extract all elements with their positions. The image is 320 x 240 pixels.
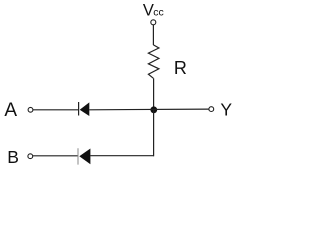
terminal A — [28, 107, 33, 112]
diode D1 (input A), cathode bar and triangle — [79, 102, 90, 116]
wire resistor to node — [153, 78, 155, 110]
diode D2 (input B), cathode bar (faint) and triangle — [78, 148, 90, 164]
svg-text:A: A — [4, 100, 17, 121]
wire diode D1 to node and node to Y terminal — [89, 108, 209, 111]
wire corner up to node — [153, 110, 155, 156]
terminal Vcc — [151, 20, 156, 25]
svg-text:R: R — [174, 58, 187, 78]
wire Vcc terminal to resistor — [152, 25, 154, 45]
svg-text:Y: Y — [220, 99, 232, 119]
node (junction of R, D1, D2, Y) — [150, 106, 157, 113]
resistor R — [148, 45, 159, 78]
wire diode D2 to corner — [90, 155, 153, 157]
terminal B — [28, 154, 33, 159]
wire A terminal to diode D1 — [33, 109, 79, 111]
svg-text:B: B — [7, 147, 19, 167]
wire B terminal to diode D2 — [33, 155, 78, 157]
terminal Y — [209, 107, 214, 112]
svg-text:cc: cc — [153, 6, 164, 18]
